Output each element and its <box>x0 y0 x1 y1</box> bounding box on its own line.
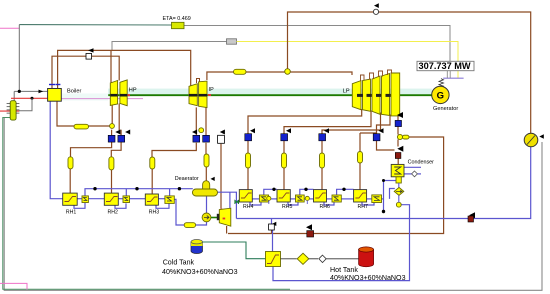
svg-text:Hot Tank: Hot Tank <box>330 266 358 274</box>
svg-text:307.737 MW: 307.737 MW <box>419 61 471 71</box>
svg-text:ETA= 0.469: ETA= 0.469 <box>163 16 191 22</box>
svg-text:RH4: RH4 <box>243 204 253 210</box>
svg-text:RH3: RH3 <box>149 210 159 216</box>
svg-text:G: G <box>437 91 444 102</box>
svg-text:Deaerator: Deaerator <box>175 176 199 182</box>
svg-text:40%KNO3+60%NaNO3: 40%KNO3+60%NaNO3 <box>330 274 406 282</box>
svg-text:IP: IP <box>209 87 214 93</box>
svg-text:40%KNO3+60%NaNO3: 40%KNO3+60%NaNO3 <box>162 268 238 276</box>
svg-text:RH2: RH2 <box>108 210 118 216</box>
svg-text:RH5: RH5 <box>282 204 292 210</box>
svg-text:Generator: Generator <box>433 106 458 112</box>
svg-text:HP: HP <box>129 87 137 93</box>
svg-text:RH1: RH1 <box>66 210 76 216</box>
svg-text:Boiler: Boiler <box>67 89 81 95</box>
svg-text:LP: LP <box>343 89 350 95</box>
svg-text:RH6: RH6 <box>320 204 330 210</box>
svg-text:RH7: RH7 <box>358 204 368 210</box>
svg-text:Condenser: Condenser <box>408 160 435 166</box>
svg-text:Cold Tank: Cold Tank <box>163 259 195 267</box>
